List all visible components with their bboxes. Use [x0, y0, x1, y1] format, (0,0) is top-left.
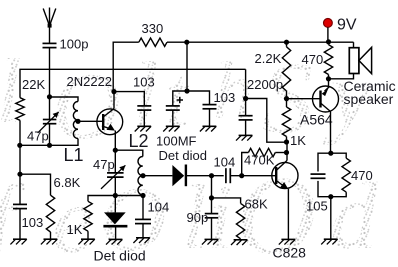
capacitor 2200p [239, 99, 253, 120]
wire [49, 48, 51, 97]
ground [163, 126, 179, 131]
label 22K [22, 77, 45, 92]
label 103 [133, 75, 155, 90]
wire [186, 175, 224, 177]
ground [279, 239, 295, 244]
wire [330, 197, 332, 240]
speaker [329, 42, 372, 79]
label A564 [300, 111, 333, 127]
wire [172, 110, 174, 126]
wire [286, 142, 288, 161]
svg-text:L1: L1 [64, 145, 84, 165]
label 68K [245, 197, 268, 212]
node collector Q3 [284, 139, 289, 155]
wire [245, 120, 247, 135]
wire [143, 110, 145, 126]
ground [202, 239, 218, 244]
wire [287, 189, 289, 240]
label 100p [60, 37, 89, 52]
svg-text:speaker: speaker [344, 91, 394, 107]
label 47p [27, 128, 49, 143]
wire [114, 131, 116, 151]
inductor L2 [138, 157, 143, 195]
ground [41, 239, 57, 244]
resistor 470 [331, 153, 351, 197]
node [284, 40, 289, 45]
wire [286, 137, 288, 143]
svg-text:2.2K: 2.2K [255, 51, 282, 66]
label 103 [22, 215, 44, 230]
node H [243, 96, 248, 101]
wire [211, 176, 213, 198]
label 105 [306, 199, 328, 214]
svg-text:C828: C828 [273, 244, 307, 260]
wire [245, 69, 247, 98]
wire [142, 224, 144, 238]
wire [143, 175, 172, 177]
wire [87, 231, 89, 239]
svg-text:470: 470 [351, 168, 373, 183]
wire [19, 120, 21, 145]
wire [49, 26, 51, 43]
svg-text:6.8K: 6.8K [54, 175, 81, 190]
wire [50, 97, 79, 102]
ground [135, 126, 151, 131]
wire [328, 42, 330, 79]
node I [284, 96, 289, 101]
svg-text:100p: 100p [60, 37, 89, 52]
svg-text:1K: 1K [67, 222, 83, 237]
label L1 [64, 145, 84, 165]
label Ceramic [344, 78, 396, 94]
svg-text:2200p: 2200p [247, 77, 283, 92]
transistor Q2 A564 [313, 86, 339, 112]
resistor 6.8K [46, 195, 54, 232]
wire [88, 195, 143, 201]
wire [20, 174, 51, 195]
capacitor 100MF [166, 91, 187, 110]
label 9V [337, 17, 357, 34]
capacitor 90p [205, 198, 219, 218]
wire [113, 92, 115, 109]
svg-text:l: l [0, 40, 22, 142]
resistor 1K [84, 201, 92, 231]
wire [114, 177, 116, 195]
wire [49, 124, 51, 146]
svg-text:Det diod: Det diod [94, 247, 146, 263]
svg-text:68K: 68K [245, 197, 268, 212]
wire [287, 98, 321, 100]
wire [78, 120, 103, 122]
label 2200p [247, 77, 283, 92]
wire [50, 232, 52, 239]
node emitter Q2 [326, 76, 331, 81]
node base Q3 [239, 173, 244, 178]
ground [133, 238, 149, 243]
L1 tap [75, 119, 80, 124]
ground [78, 239, 94, 244]
node A [47, 94, 52, 99]
label 330 [142, 21, 164, 36]
svg-text:9V: 9V [337, 17, 357, 34]
node C [17, 172, 22, 177]
svg-text:100MF: 100MF [156, 133, 197, 148]
wire [115, 150, 143, 156]
transistor Q1 2N2222 [97, 109, 123, 135]
wire [187, 41, 354, 43]
resistor 68K [236, 203, 244, 238]
capacitor 105 [311, 153, 331, 197]
node E [184, 88, 189, 93]
diode Det diod [172, 165, 186, 187]
label 47p [93, 157, 115, 172]
capacitor 103 [203, 105, 217, 109]
wire [115, 227, 117, 239]
label 104 [148, 199, 170, 214]
transistor Q3 C828 [272, 161, 298, 189]
node emitter Q1 [113, 148, 118, 153]
wire [114, 92, 144, 106]
svg-text:470: 470 [302, 52, 324, 67]
label 470K [244, 153, 275, 168]
wire [19, 174, 21, 204]
resistor 1K [282, 107, 290, 137]
svg-text:330: 330 [142, 21, 164, 36]
wire [113, 42, 139, 91]
variable capacitor 47p [38, 97, 59, 133]
svg-text:47p: 47p [27, 128, 49, 143]
label 2N2222 [67, 74, 113, 89]
node D [184, 40, 189, 45]
resistor 330 [139, 38, 167, 46]
wire [230, 175, 276, 177]
label 6.8K [54, 175, 81, 190]
capacitor 100p [43, 43, 57, 47]
node B [17, 143, 52, 148]
svg-text:90p: 90p [187, 210, 209, 225]
wire [19, 145, 21, 174]
capacitor 103 [137, 106, 151, 110]
inductor L1 [73, 102, 78, 139]
svg-text:L2: L2 [129, 131, 149, 151]
svg-text:470K: 470K [244, 153, 275, 168]
wire [186, 42, 188, 91]
antenna [43, 8, 56, 28]
node collector Q1 [111, 89, 116, 94]
node [113, 193, 146, 198]
ground [321, 239, 337, 244]
label L2 [129, 131, 149, 151]
svg-text:1K: 1K [290, 133, 306, 148]
wire [286, 99, 288, 107]
resistor 2.2K [282, 47, 290, 91]
wire [187, 91, 210, 105]
label 1K [290, 133, 306, 148]
label Det diod [94, 247, 146, 263]
label 470 [351, 168, 373, 183]
ground [236, 135, 252, 140]
label C828 [273, 244, 307, 260]
svg-text:Det diod: Det diod [159, 148, 207, 163]
label 100MF [156, 133, 197, 148]
capacitor 104 [226, 168, 230, 183]
wire [246, 99, 287, 143]
capacitor 104 [135, 196, 151, 224]
node F [209, 173, 214, 178]
svg-text:103: 103 [133, 75, 155, 90]
ground [231, 240, 247, 245]
wire [209, 109, 211, 127]
resistor 470K [242, 148, 287, 175]
label 104 [214, 154, 236, 169]
wire [19, 209, 21, 240]
wire [286, 42, 288, 98]
wire [212, 198, 241, 204]
wire [20, 139, 78, 146]
battery 9V [324, 19, 333, 42]
resistor 22K [16, 98, 24, 121]
svg-text:A564: A564 [300, 111, 333, 127]
label 103 [214, 90, 236, 105]
label 470 [302, 52, 324, 67]
svg-text:104: 104 [148, 199, 170, 214]
node J [328, 151, 333, 156]
wire [20, 69, 246, 97]
node K [328, 194, 333, 199]
label Det diod [159, 148, 207, 163]
label 2.2K [255, 51, 282, 66]
diode Det diod [103, 196, 127, 227]
svg-text:104: 104 [214, 154, 236, 169]
svg-text:105: 105 [306, 199, 328, 214]
wire [330, 112, 332, 154]
variable capacitor 47p [101, 150, 125, 189]
ground [106, 239, 122, 244]
wire [167, 41, 187, 43]
svg-text:2N2222: 2N2222 [67, 74, 113, 89]
capacitor 103 [13, 204, 27, 208]
ground [200, 126, 216, 131]
L2 tap [140, 173, 145, 178]
svg-text:47p: 47p [93, 157, 115, 172]
node [326, 39, 331, 44]
label 1K [67, 222, 83, 237]
ground [10, 239, 26, 244]
resistor 470 [324, 45, 332, 75]
wire [328, 79, 330, 88]
svg-text:103: 103 [22, 215, 44, 230]
label 90p [187, 210, 209, 225]
label speaker [344, 91, 394, 107]
node G [209, 195, 214, 200]
svg-text:22K: 22K [22, 77, 45, 92]
wire [211, 218, 213, 240]
svg-text:103: 103 [214, 90, 236, 105]
